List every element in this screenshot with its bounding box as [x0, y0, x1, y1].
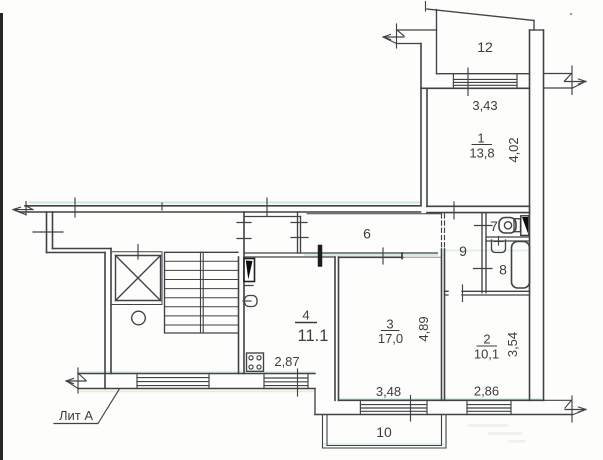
window kitchen jambs: [264, 374, 308, 389]
svg-text:4,02: 4,02: [506, 137, 521, 162]
svg-text:3,48: 3,48: [376, 384, 401, 399]
svg-text:2,86: 2,86: [474, 384, 499, 399]
axis arrow A4 bottom-left: [66, 368, 86, 393]
window stair hatch lines: [137, 378, 209, 386]
window room3: hatch: [360, 405, 427, 412]
scan dot top-right: [570, 13, 572, 15]
svg-text:11.1: 11.1: [298, 327, 329, 345]
toilet circle: [504, 222, 511, 229]
wire balcony left wall: [436, 10, 438, 74]
cyan fringe rooms bottom: [340, 398, 540, 400]
node tick on left wall y232: [33, 231, 63, 233]
wire left wall lower inner: [110, 249, 112, 374]
axis arrow A3 top-left: [13, 202, 33, 216]
wire jog horizontal outer: [47, 252, 106, 254]
svg-text:3,43: 3,43: [472, 98, 497, 113]
node tick above elevator x138: [137, 245, 139, 260]
wire rooms 3/9/2 shared wall outer: [441, 249, 443, 400]
wire top wall inner line: [20, 211, 421, 213]
cyan fringe balcony10: [324, 443, 444, 445]
wire kitchen left wall inner / vestibule left wall: [243, 212, 245, 374]
door leaf wc black triangle: [521, 216, 529, 236]
scan left black border: [0, 13, 3, 460]
window room2: hatch: [467, 405, 511, 412]
axis arrow A1: [383, 31, 404, 44]
node ticks vestibule left wall: [237, 223, 251, 239]
wire pillar top: [530, 29, 544, 31]
svg-text:17,0: 17,0: [378, 331, 403, 346]
window room1 balcony: hatch: [453, 79, 517, 85]
svg-text:Лит А: Лит А: [59, 408, 93, 423]
wire left wall upper inner: [52, 212, 54, 249]
node tick window x468: [467, 68, 469, 96]
svg-text:3,54: 3,54: [505, 332, 520, 357]
svg-text:12: 12: [477, 39, 493, 55]
svg-text:4: 4: [302, 308, 309, 323]
wire balcony roof slant: [427, 9, 534, 21]
wire room9 bottom wall lower line with door gap: [445, 294, 530, 296]
wire kitchen/room3 wall inner: [338, 257, 340, 400]
label room 2 underline: [477, 345, 498, 347]
leader line Lit A: [54, 390, 119, 424]
node tick kitchen window x297: [297, 369, 299, 396]
garbage chute circle: [132, 311, 146, 325]
wire bottom strip top line: [78, 373, 315, 375]
wire vestibule right wall outer: [297, 212, 299, 253]
cyan fringe corridor: [305, 254, 437, 256]
svg-text:4,89: 4,89: [416, 316, 431, 341]
elevator shaft outer box: [111, 252, 162, 305]
node tick on top wall x270: [266, 198, 268, 216]
door apartment entrance: [244, 259, 255, 282]
axis arrow A5 bottom-right: [544, 396, 587, 422]
wire bottom strip bottom line: [78, 388, 315, 390]
wire vestibule bottom wall lower line: [244, 256, 335, 258]
wire right wall inner line: [529, 30, 531, 400]
window room1 jambs: [453, 74, 517, 89]
node tick bath wall y268: [474, 268, 493, 270]
wire room1 top line: [421, 87, 530, 89]
svg-text:9: 9: [459, 243, 467, 259]
wire right wall outer line: [543, 30, 545, 400]
label kitchen underline: [295, 322, 317, 324]
door jamb dark tick kitchen door: [318, 247, 323, 265]
node tick on top wall x75: [74, 198, 76, 217]
faint scan smudges bottom: [468, 424, 526, 443]
wire divider wall 7/8 lower: [486, 240, 530, 242]
svg-text:10: 10: [376, 424, 392, 440]
wire vestibule bottom wall upper line: [244, 252, 437, 254]
svg-text:6: 6: [363, 226, 371, 242]
svg-text:1: 1: [477, 131, 484, 146]
node tick balcony top-left: [425, 2, 427, 12]
wire wc left wall inner: [485, 213, 487, 293]
stairs outline: [165, 252, 239, 333]
label room 1 underline: [472, 144, 493, 146]
wire room9 bottom wall upper line with door gap: [445, 290, 530, 292]
svg-text:8: 8: [499, 262, 507, 278]
wire left wall lower outer: [104, 253, 106, 389]
svg-text:13,8: 13,8: [469, 146, 494, 161]
axis arrow A2 right of balcony: [544, 66, 587, 95]
node ticks vestibule right wall: [291, 223, 308, 238]
wire rooms 3/9/2 shared wall inner: [444, 249, 446, 400]
wire balcony10 left edge double: [323, 415, 328, 449]
wire kitchen/room3 wall outer: [334, 257, 336, 400]
svg-text:2: 2: [483, 332, 490, 347]
wire vestibule top wall: [244, 216, 301, 218]
wire balcony10 bottom double: [323, 446, 447, 449]
door handle symbol: [243, 286, 257, 308]
svg-text:3: 3: [386, 317, 393, 332]
bathtub: [512, 242, 530, 289]
wire room9 left wall dashed upper: [441, 214, 443, 249]
node tick x396: [396, 24, 398, 48]
window room3 jambs: [360, 400, 427, 414]
window room2 jambs: [467, 400, 511, 414]
wire step lines left of balcony: [397, 29, 437, 31]
wire top wall right part inner: [427, 212, 530, 214]
node tick wc wall y225: [475, 225, 493, 227]
node tick on top wall x454: [453, 202, 455, 219]
wire room1 left wall outer: [420, 44, 422, 206]
wire rooms bottom wall top line: [339, 399, 544, 401]
window kitchen hatch lines: [264, 378, 308, 386]
toilet tank: [514, 219, 521, 232]
wire vestibule right wall inner: [300, 217, 302, 254]
node tick room3 top wall x383: [382, 248, 384, 264]
wire jog horizontal inner: [53, 248, 112, 250]
wire left wall upper outer: [46, 212, 48, 253]
wire divider wall 7/8 upper: [486, 236, 530, 238]
wire kitchen left wall outer: [238, 257, 240, 374]
svg-text:10,1: 10,1: [474, 347, 499, 362]
wire room3 top wall faded door segment: [403, 256, 442, 258]
node tick on top wall x162: [161, 203, 163, 210]
yellow fringe bottom strip: [80, 390, 314, 392]
stairs central stringer: [201, 252, 204, 333]
cyan fringe bottom strip: [80, 371, 314, 373]
svg-text:2,87: 2,87: [274, 354, 299, 369]
sink in bath: [492, 237, 506, 253]
wire step down to rooms bottom wall: [314, 389, 316, 415]
wire room3 top wall room-side: [339, 256, 404, 258]
node door jamb blob room3: [401, 253, 403, 259]
wire top wall right part outer: [427, 205, 530, 207]
wire balcony right edge: [533, 21, 535, 31]
stairs treads: [165, 261, 239, 325]
toilet bowl: [499, 218, 516, 234]
label room 3 underline: [381, 330, 400, 332]
svg-text:7: 7: [490, 218, 498, 234]
wire balcony floor line: [437, 73, 530, 75]
node tick door jamb x462: [462, 285, 464, 302]
wire rooms bottom wall bottom line: [315, 414, 572, 416]
wire corridor top inner line: [307, 213, 441, 215]
wire wc left wall outer: [481, 213, 483, 293]
wire balcony10 right edge double: [442, 415, 447, 449]
window stair jambs: [137, 374, 209, 389]
stove kitchen: [247, 353, 264, 371]
wire room1 left wall inner: [426, 88, 428, 206]
node tick window room3 x410: [410, 396, 412, 422]
wire top wall outer line: [25, 205, 421, 207]
elevator cab square with X: [116, 256, 161, 301]
cyan scan fringe top wall: [30, 202, 420, 204]
